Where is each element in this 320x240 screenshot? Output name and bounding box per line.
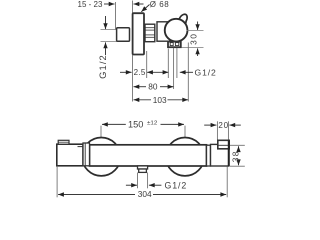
dimension 15-23 right arrow [134,3,144,5]
handle collar [83,143,90,166]
nut rib line 2 [145,29,155,31]
svg-text:20: 20 [218,121,229,130]
2.5 dim right extension line [146,51,148,78]
wall flange escutcheon (side profile) [133,13,144,54]
30 dim bottom extension line [182,46,204,48]
nut rib line 1 [145,27,155,29]
right union collar [207,145,211,166]
outlet right extension line [176,48,178,78]
nut inner line [218,144,229,146]
304 dim line left segment [58,194,135,196]
square bottom extension line [101,40,118,42]
temperature handle body [57,144,83,166]
20 dim right arrow [229,124,240,126]
right union body [211,144,229,166]
svg-text:G1/2: G1/2 [97,54,108,79]
svg-text:G1/2: G1/2 [195,67,217,77]
bottom G1/2 left arrow [126,184,137,186]
2.5 dim left arrow [120,71,132,73]
38 dim up arrow [238,146,240,151]
nut rib line 4 [145,36,155,38]
stub right extension line [147,173,149,189]
dimension 15-23 left arrow [104,3,115,5]
svg-text:103: 103 [153,95,167,105]
20 dim left arrow [204,124,216,126]
38 dim top extension line [230,144,245,146]
handle collar inner line [84,143,86,166]
outlet block notch left [170,43,173,46]
left G1/2 dim down arrow [105,16,107,29]
30 dim up arrow [197,48,199,56]
body left lower extension line [167,49,169,79]
stub left extension line [137,173,139,189]
304 dim right extension line [226,167,228,198]
svg-text:Ø 68: Ø 68 [150,0,169,9]
double arrow between flange and outlet [147,71,168,73]
20 dim right extension line [227,121,229,140]
outlet block notch right [175,43,178,46]
150 dim line right segment [161,123,185,125]
flange face upper extension line [132,1,134,14]
outlet block below knob [168,42,181,48]
valve body (plan) [157,22,170,41]
ribbed union nut [145,24,155,42]
right G1/2 dim arrow [180,71,193,73]
svg-text:2.5: 2.5 [134,68,146,77]
38 dim down arrow [238,160,240,165]
mixer bar body [90,145,207,166]
left escutcheon circle [82,138,120,176]
150 dim line left segment [102,123,126,125]
label Ø68 leader arrow [141,5,149,12]
svg-text:±12: ±12 [147,121,157,127]
150 dim left extension line [100,126,102,138]
square top extension line [101,29,118,31]
150 dim right extension line [184,126,186,138]
103 dim line right segment [168,99,189,101]
handle knob circle (plan) [165,19,188,42]
handle grip ridge [58,140,69,144]
38 dim bottom extension line [230,165,245,167]
304 dim line right segment [153,194,226,196]
outlet left extension line [173,48,175,89]
svg-text:304: 304 [138,189,152,199]
svg-text:15 - 23: 15 - 23 [78,0,103,9]
union bold right edge [228,140,230,166]
handle ridge inner line [58,141,69,143]
right union nut [218,140,229,149]
outlet stub pipe [139,169,147,172]
80 dim line right segment [160,86,173,88]
handle top tick [78,146,84,148]
svg-text:30: 30 [188,33,198,45]
30 dim down arrow [197,22,199,31]
svg-text:38: 38 [231,150,241,162]
flange face lower extension line [132,55,134,102]
103 dim line left segment [134,99,152,101]
30 dim top extension line [187,29,204,31]
svg-text:150: 150 [128,120,143,130]
knob right extension line [187,43,189,102]
20 dim left extension line [216,121,218,140]
svg-text:G1/2: G1/2 [165,181,188,191]
80 dim line left segment [134,86,147,88]
svg-text:80: 80 [148,81,158,91]
handle knob tab [179,14,187,24]
nut rib line 3 [145,34,155,36]
304 dim left extension line [56,166,58,198]
wall pipe square connector [117,28,130,42]
wall extension line [115,2,117,30]
outlet stub lip [138,166,148,169]
left G1/2 dim up arrow [105,42,107,55]
bottom G1/2 right arrow [149,184,162,186]
right escutcheon circle [166,138,204,176]
